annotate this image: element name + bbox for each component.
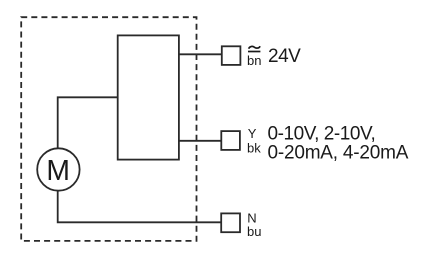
wire block to 24V terminal	[179, 53, 222, 55]
label Y	[248, 126, 257, 141]
label bk	[247, 141, 261, 156]
svg-text:0-20mA, 4-20mA: 0-20mA, 4-20mA	[268, 143, 409, 164]
svg-text:M: M	[46, 154, 70, 186]
svg-text:bu: bu	[247, 224, 261, 239]
label bn	[247, 53, 261, 68]
label signal range line 1	[268, 123, 376, 144]
wire block to motor	[58, 97, 118, 147]
svg-text:24V: 24V	[268, 46, 301, 67]
label 24V	[268, 46, 301, 67]
actuator block U1	[118, 35, 179, 159]
terminal 1 (24V, bn)	[222, 46, 241, 65]
label signal range line 2	[268, 143, 409, 164]
svg-text:bn: bn	[247, 53, 261, 68]
label N	[247, 211, 256, 226]
svg-text:0-10V, 2-10V,: 0-10V, 2-10V,	[268, 123, 376, 144]
svg-text:Y: Y	[248, 126, 257, 141]
wire motor to N terminal	[58, 191, 222, 222]
svg-text:bk: bk	[247, 141, 261, 156]
enclosure dashed boundary	[21, 17, 196, 241]
motor M1	[37, 148, 79, 190]
wire block to Y terminal	[179, 140, 221, 142]
terminal 3 (N, bu)	[221, 213, 240, 232]
terminal 2 (Y, bk)	[221, 131, 240, 150]
AC/DC symbol	[248, 46, 260, 51]
label bu	[247, 224, 261, 239]
